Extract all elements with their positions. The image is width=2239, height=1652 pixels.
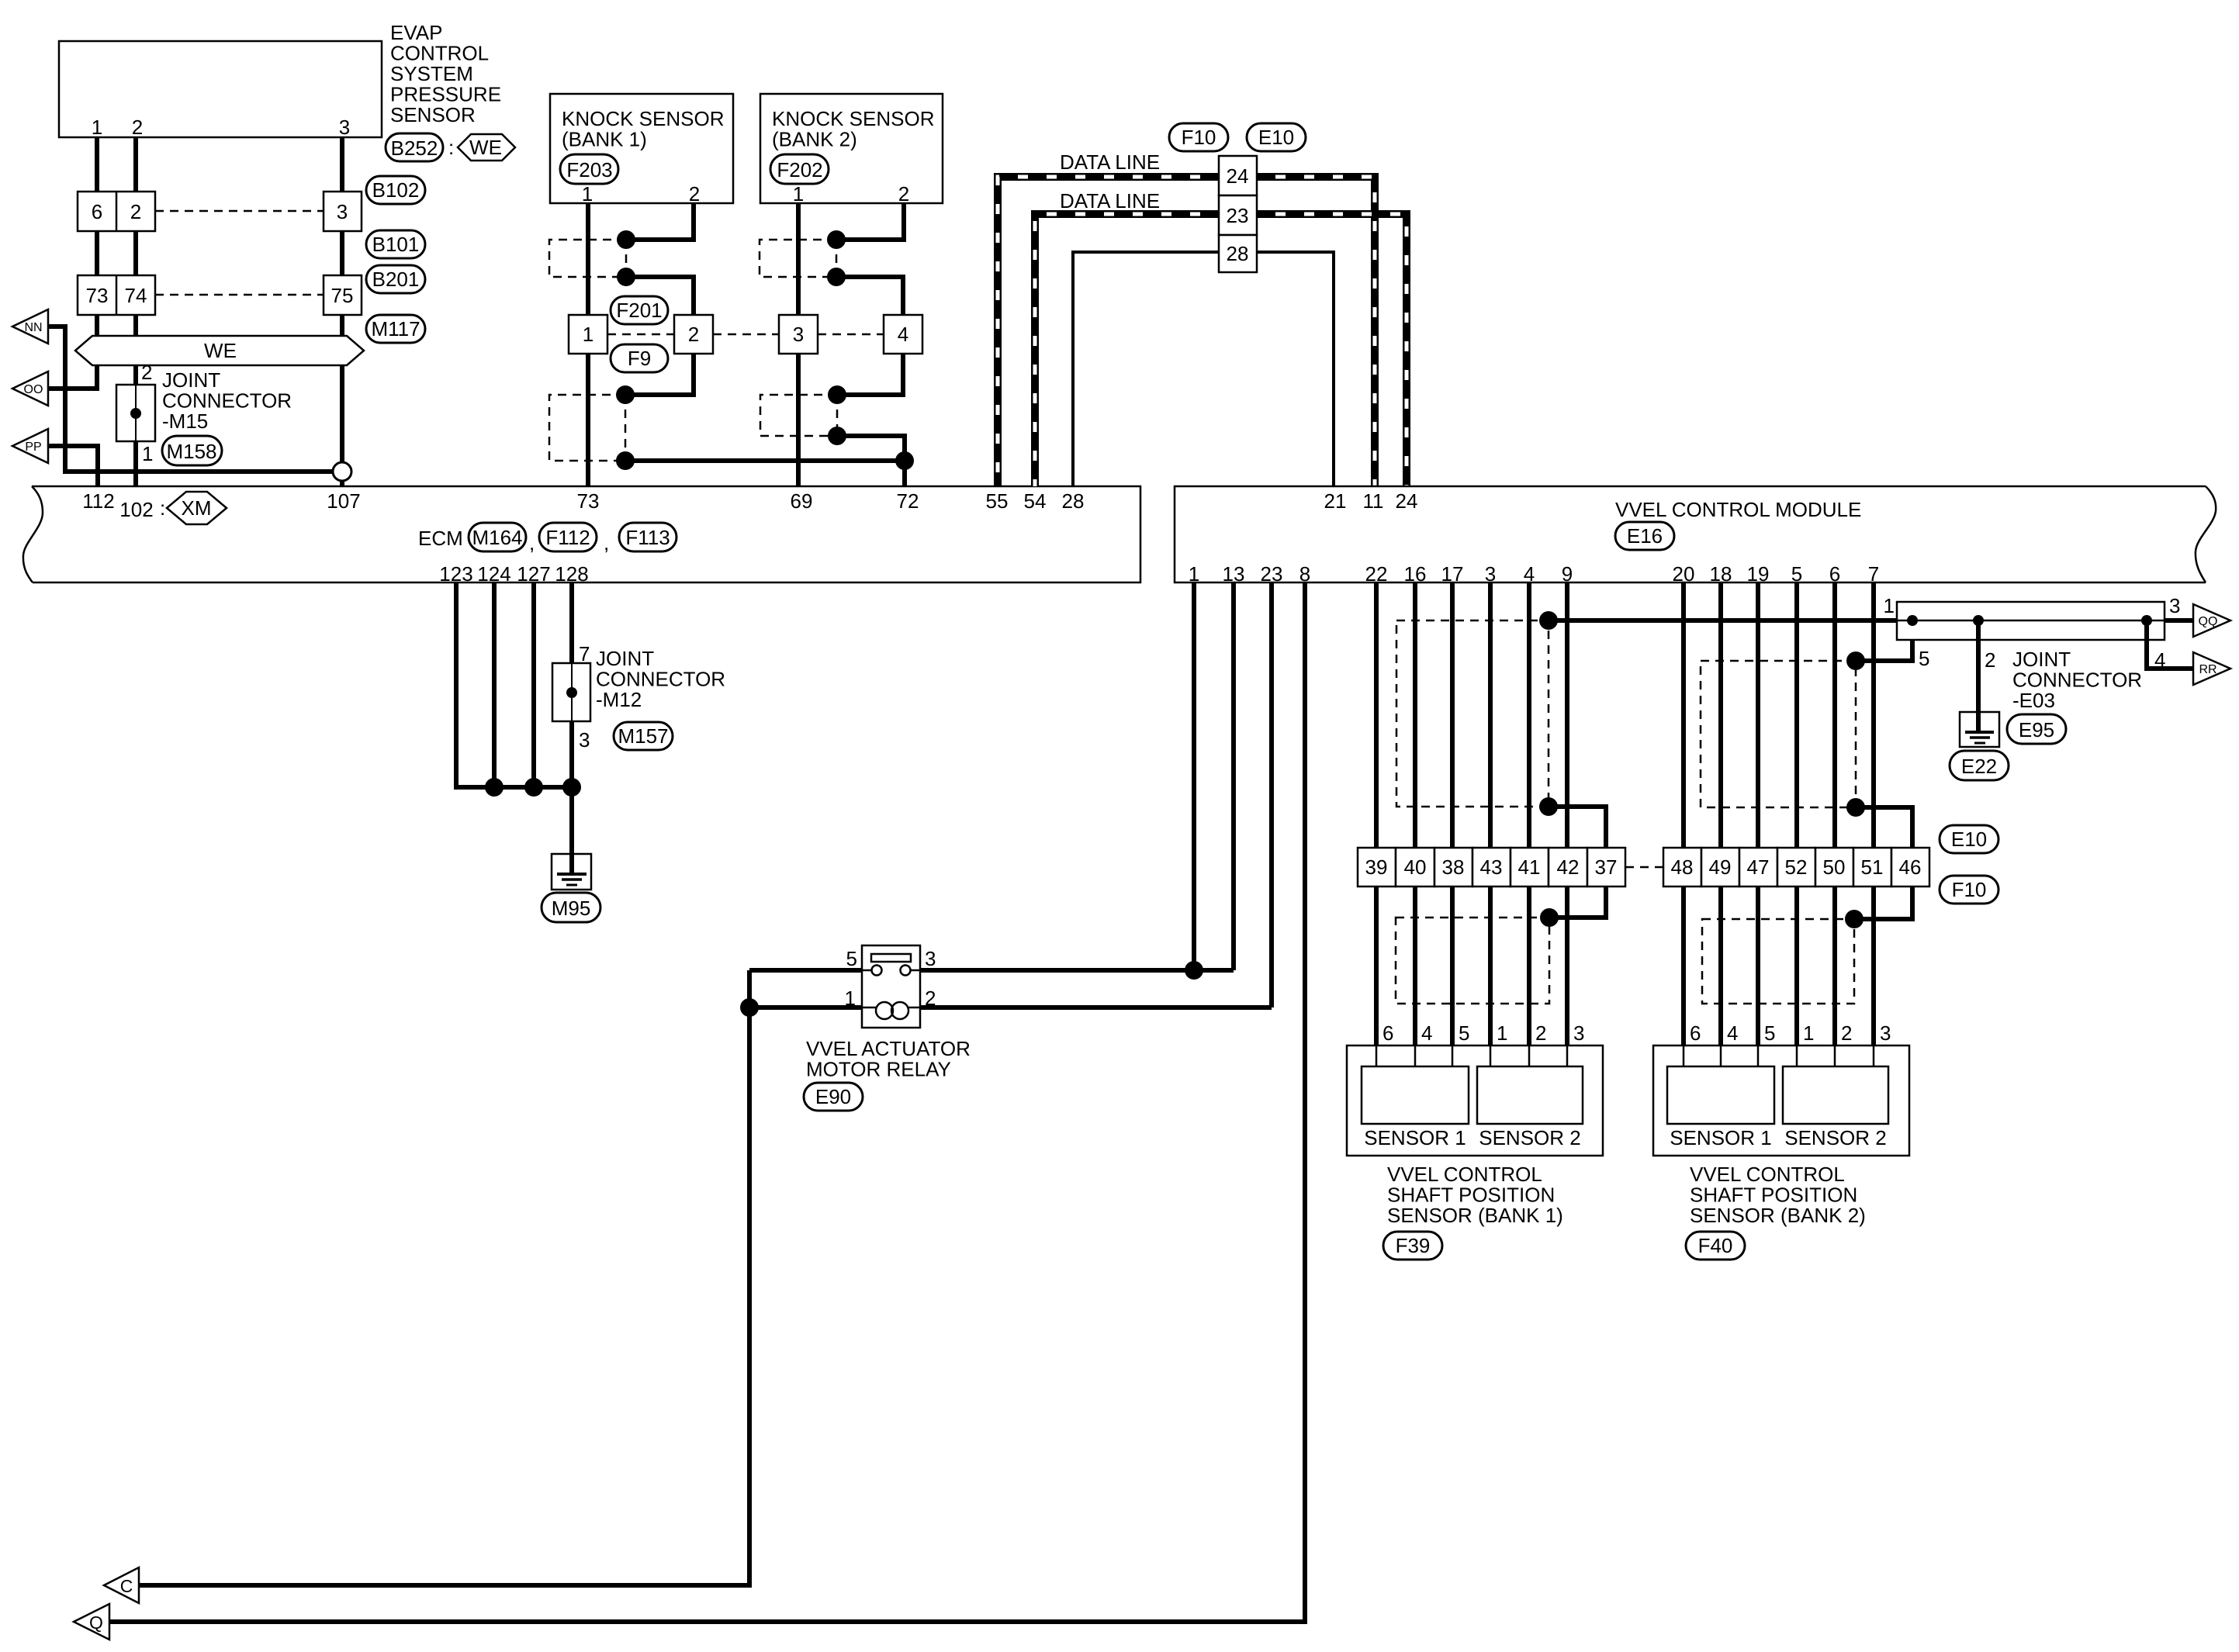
junction dot shield B2 lower a (828, 385, 846, 404)
wire: shield B2 to ECM 72 riser (837, 436, 905, 486)
svg-text:47: 47 (1747, 855, 1770, 879)
svg-text:112: 112 (82, 489, 114, 513)
connector oval M95 (542, 893, 600, 922)
svg-text:KNOCK SENSOR: KNOCK SENSOR (772, 107, 935, 130)
shield dashed box F40 lower (1702, 919, 1854, 1004)
connector oval B252 (386, 133, 443, 161)
svg-text:F203: F203 (566, 158, 612, 181)
svg-text:21: 21 (1324, 489, 1347, 513)
joint connector -M15 box (116, 385, 155, 441)
svg-text:DATA LINE: DATA LINE (1060, 189, 1160, 213)
connector row B201/M117: cell 75 (324, 275, 362, 315)
svg-text::: : (160, 496, 165, 520)
svg-text:Q: Q (89, 1612, 103, 1633)
svg-text:50: 50 (1823, 855, 1846, 879)
svg-text:18: 18 (1710, 562, 1732, 586)
junction dot shield B2 upper b (827, 268, 846, 286)
junction dot shield B1 lower a (616, 385, 635, 404)
connector oval M157 (614, 722, 673, 750)
connector oval F10 (top) (1169, 123, 1228, 151)
connector oval M158 (162, 436, 222, 465)
wire: below F201 pin2 to shield (625, 354, 694, 395)
data line connector cell 28 (1219, 235, 1257, 272)
svg-text:73: 73 (577, 489, 600, 513)
svg-text:CONNECTOR: CONNECTOR (2012, 669, 2142, 692)
knock harness connector cell 1 (569, 315, 607, 354)
svg-text:PRESSURE: PRESSURE (390, 83, 501, 106)
svg-text:3: 3 (1485, 562, 1496, 586)
svg-text:3: 3 (2169, 594, 2180, 617)
wire: M15 pin1 to ECM pin 102 (133, 441, 138, 486)
wire: ECM pin 123 ground branch (456, 582, 572, 787)
wire: VVEL pin22 to F39 sensor (1374, 582, 1379, 1045)
svg-text:E16: E16 (1627, 524, 1663, 548)
harness arrow C (104, 1567, 139, 1603)
svg-text:49: 49 (1709, 855, 1732, 879)
svg-text:123: 123 (439, 562, 472, 586)
svg-text:24: 24 (1396, 489, 1418, 513)
svg-text:E90: E90 (815, 1085, 851, 1108)
wire: junction to ground M95 (569, 787, 574, 874)
svg-text:ECM: ECM (418, 527, 463, 550)
wire: shield to joint connector E03 pin1 (1549, 618, 1897, 623)
VVEL shaft position sensor bank1 outer box (1347, 1045, 1603, 1156)
svg-text:19: 19 (1747, 562, 1770, 586)
svg-text:40: 40 (1404, 855, 1427, 879)
wire: B101 pin2 to B201 pin74 (133, 231, 138, 275)
svg-text:B102: B102 (372, 178, 420, 202)
wire: VVEL pin17 to F39 sensor (1450, 582, 1455, 1045)
VVEL bus torn right edge (2196, 486, 2216, 582)
wire: ECM pin 124 ground branch (492, 582, 497, 787)
junction dot shield B2 lower b (828, 427, 846, 445)
wire: B101 pin6 to B201 pin73 (95, 231, 99, 275)
VVEL shaft position sensor bank2 outer box (1653, 1045, 1909, 1156)
M12 internal junction dot (566, 687, 577, 698)
knock harness connector cell 3 (779, 315, 818, 354)
svg-text:1: 1 (793, 182, 804, 206)
svg-text:C: C (120, 1576, 133, 1596)
wire: VVEL pin4 to F39 sensor (1527, 582, 1531, 1045)
wire: E03 pin3 to arrow QQ (2165, 618, 2193, 623)
svg-text:2: 2 (130, 200, 141, 223)
svg-text:F202: F202 (777, 158, 822, 181)
dashed shield box B2 upper (760, 240, 836, 277)
svg-text:3: 3 (925, 947, 936, 970)
svg-text:E22: E22 (1961, 755, 1997, 778)
svg-text:KNOCK SENSOR: KNOCK SENSOR (562, 107, 725, 130)
wire: VVEL pin7 to F40 sensor (1871, 582, 1876, 1045)
svg-text:24: 24 (1227, 164, 1249, 188)
wire: box28 to ECM 28 (1073, 252, 1219, 486)
connector oval E22 (1950, 751, 2009, 780)
svg-text:,: , (604, 531, 609, 555)
joint connector -M12 box (552, 663, 590, 721)
svg-text:1: 1 (583, 323, 593, 346)
svg-text:CONNECTOR: CONNECTOR (596, 668, 725, 691)
wire: PP arrow to ECM pin 112 (48, 446, 98, 486)
svg-text:RR: RR (2199, 663, 2217, 676)
harness arrow OO (12, 372, 48, 406)
svg-text:7: 7 (579, 642, 590, 665)
junction dot shield B1 upper b (617, 268, 635, 286)
ground symbol M95 (552, 854, 591, 890)
wire: knock sensor B1 pin1 to ECM 73 (586, 203, 590, 486)
wire: riser to arrow C (139, 970, 749, 1585)
knock sensor bank2 box (760, 94, 943, 203)
connector oval F39 (1383, 1232, 1442, 1260)
svg-text:F10: F10 (1952, 878, 1987, 901)
svg-text:F201: F201 (616, 299, 662, 322)
svg-text:JOINT: JOINT (2012, 648, 2071, 671)
svg-text:NN: NN (24, 321, 42, 334)
svg-text:124: 124 (477, 562, 510, 586)
wire: shield to connector cell 46 (1854, 807, 1912, 919)
svg-text:2: 2 (1535, 1021, 1546, 1045)
junction dot 124 (485, 778, 504, 797)
svg-text:2: 2 (689, 182, 700, 206)
connector row B201/M117: cells 73 and 74 (78, 275, 155, 315)
svg-text:2: 2 (898, 182, 909, 206)
wire: VVEL pin18 to F40 sensor (1718, 582, 1723, 1045)
wire: box28 to VVEL 21 (1257, 252, 1334, 486)
relay coil internal stubs (862, 1007, 876, 1009)
relay contact terminal right (901, 966, 911, 976)
shield junction dot F39 lower (1539, 797, 1558, 816)
connector oval F112 (539, 523, 597, 551)
svg-text:VVEL CONTROL: VVEL CONTROL (1690, 1163, 1845, 1186)
svg-text::: : (448, 136, 454, 159)
svg-text:1: 1 (142, 442, 153, 465)
F39 sensor2 inner box (1477, 1066, 1583, 1124)
wire: E03 pin2 to ground E22 (1976, 620, 1981, 732)
shield junction dot F40 lower (1846, 798, 1865, 817)
svg-text:B201: B201 (372, 268, 420, 291)
F40 sensor2 inner box (1783, 1066, 1888, 1124)
dashed shield box B1 lower (549, 395, 625, 461)
svg-text:28: 28 (1062, 489, 1085, 513)
svg-text:SHAFT POSITION: SHAFT POSITION (1690, 1184, 1857, 1207)
connector oval F40 (1686, 1232, 1745, 1260)
svg-text:VVEL CONTROL: VVEL CONTROL (1387, 1163, 1542, 1186)
svg-text:SENSOR 1: SENSOR 1 (1670, 1126, 1772, 1149)
wire: VVEL pin19 to F40 sensor (1756, 582, 1760, 1045)
svg-text:(BANK 2): (BANK 2) (772, 128, 857, 151)
svg-text:(BANK 1): (BANK 1) (562, 128, 647, 151)
connector row B102/B101: cell 3 (324, 192, 362, 231)
svg-text:F9: F9 (628, 347, 651, 370)
wire: VVEL pin6 to F40 sensor (1832, 582, 1837, 1045)
wire: knock sensor B2 pin2 jog (836, 203, 904, 240)
harness arrow RR (2193, 652, 2230, 685)
svg-text:3: 3 (337, 200, 348, 223)
wire: M117 pin75 down through WE band (340, 315, 344, 351)
wire: relay pin5 to arrow C riser (749, 968, 862, 973)
svg-text:37: 37 (1595, 855, 1618, 879)
svg-text:23: 23 (1261, 562, 1283, 586)
E03 internal dot pin5 (1907, 615, 1918, 626)
svg-text:SENSOR (BANK 1): SENSOR (BANK 1) (1387, 1204, 1563, 1227)
connector oval M164 (469, 523, 526, 551)
dashed shield link B1 upper (625, 240, 628, 277)
wire: shield B2 to connector F201 pin4 (836, 277, 903, 315)
E03 internal dot pin2 (1973, 615, 1984, 626)
shield junction dot F40 bottom (1845, 910, 1864, 928)
svg-text:SHAFT POSITION: SHAFT POSITION (1387, 1184, 1555, 1207)
svg-text:SENSOR 1: SENSOR 1 (1364, 1126, 1466, 1149)
dashed link 3-4 (818, 334, 884, 336)
F40 sensor1 inner box (1667, 1066, 1774, 1124)
svg-text:6: 6 (92, 200, 102, 223)
wire: M117 pin74 down through WE band (133, 315, 138, 351)
svg-text:4: 4 (1727, 1021, 1738, 1045)
svg-text:,: , (529, 531, 535, 555)
junction dot 128 (562, 778, 581, 797)
data line CAN-L (thick dashed) left: box23 to ECM 54 (1035, 214, 1219, 486)
svg-text:5: 5 (1764, 1021, 1775, 1045)
svg-text:E95: E95 (2019, 718, 2054, 741)
F40 pin stubs (1683, 1045, 1685, 1066)
connector oval B101 (366, 230, 425, 258)
svg-text:2: 2 (688, 323, 699, 346)
wire name band WE (hexagonal) (75, 336, 364, 365)
svg-text:43: 43 (1480, 855, 1503, 879)
data line connector cell 24 (1219, 156, 1257, 195)
wire: EVAP pin1 to connector B102 pin6 (95, 137, 99, 192)
connector row B102/B101: cells 6 and 2 (78, 192, 155, 231)
wire: shield bus to ECM 72 (long horizontal) (625, 458, 905, 463)
svg-text:38: 38 (1442, 855, 1465, 879)
svg-text:2: 2 (141, 361, 152, 384)
wire: VVEL pin3 to F39 sensor (1488, 582, 1493, 1045)
dashed shield box B2 lower (760, 395, 837, 436)
connector oval E10 (top) (1247, 123, 1306, 151)
svg-text:3: 3 (793, 323, 804, 346)
svg-text:QQ: QQ (2199, 615, 2218, 628)
svg-text:XM: XM (182, 496, 212, 520)
wire: relay pin3 to VVEL pins 1 and 13 (920, 968, 1234, 973)
svg-text:F112: F112 (545, 526, 590, 549)
F39 pin stubs (1376, 1045, 1378, 1066)
EVAP control system pressure sensor box (59, 41, 382, 137)
svg-text:102: 102 (119, 498, 153, 521)
svg-text:F10: F10 (1182, 126, 1216, 149)
connector oval F9 (611, 344, 668, 372)
dashed shield link B2 upper (836, 240, 838, 277)
svg-text:23: 23 (1227, 204, 1249, 227)
harness arrow PP (12, 429, 48, 463)
junction dot shield B1 lower b (616, 451, 635, 470)
wire: relay pin2 to VVEL pin 23 (920, 1005, 1272, 1010)
svg-text:2: 2 (1985, 648, 1995, 672)
svg-text:CONNECTOR: CONNECTOR (162, 389, 292, 413)
connector oval F202 (770, 154, 829, 184)
svg-text:SYSTEM: SYSTEM (390, 62, 473, 85)
junction dot shield B1 upper a (617, 230, 635, 249)
wire: VVEL pin16 to F39 sensor (1413, 582, 1417, 1045)
svg-text:5: 5 (1459, 1021, 1469, 1045)
svg-text:20: 20 (1673, 562, 1695, 586)
F39 sensor1 inner box (1362, 1066, 1469, 1124)
svg-text:MOTOR RELAY: MOTOR RELAY (806, 1058, 951, 1081)
svg-text:JOINT: JOINT (596, 647, 654, 670)
svg-text:B252: B252 (391, 137, 438, 160)
harness arrow Q (74, 1604, 109, 1640)
wire: VVEL pin5 to F40 sensor (1794, 582, 1799, 1045)
ECM bus torn left edge (23, 486, 43, 582)
wire: B101 pin3 to B201 pin75 (340, 231, 344, 275)
svg-text:107: 107 (327, 489, 360, 513)
wire: knock sensor B2 pin1 to ECM 69 (796, 203, 801, 486)
svg-text:F113: F113 (625, 526, 670, 549)
svg-text:F39: F39 (1396, 1234, 1431, 1257)
svg-text:1: 1 (92, 116, 102, 139)
E03 internal dot pin4 (2141, 615, 2152, 626)
connector oval B102 (366, 176, 425, 204)
harness arrow QQ (2193, 604, 2230, 637)
svg-text:3: 3 (1880, 1021, 1891, 1045)
wire: VVEL pin9 to F39 sensor (1565, 582, 1569, 1045)
svg-text:WE: WE (469, 136, 502, 159)
dashed shield link B2 lower (836, 395, 839, 436)
svg-text:SENSOR 2: SENSOR 2 (1784, 1126, 1887, 1149)
svg-text:M95: M95 (552, 897, 591, 920)
harness connector row F40: cells 48 49 47 52 50 51 46 (1663, 848, 1701, 886)
svg-text:VVEL ACTUATOR: VVEL ACTUATOR (806, 1037, 971, 1060)
knock harness connector cell 2 (674, 315, 713, 354)
svg-text:127: 127 (517, 562, 550, 586)
wire: ECM pin 128 to joint connector M12 (569, 582, 574, 663)
connector oval M117 (366, 315, 425, 343)
svg-text:5: 5 (846, 947, 857, 970)
wire: M117 pin73 down through WE band (95, 315, 99, 351)
wire: VVEL pin23 to relay coil (1269, 582, 1274, 1007)
svg-text:74: 74 (125, 284, 147, 307)
svg-text:5: 5 (1919, 647, 1929, 670)
svg-text:-E03: -E03 (2012, 689, 2055, 712)
wire: EVAP pin3 branch down to ECM pin 107 (340, 365, 344, 486)
junction dot relay coil feed (740, 998, 759, 1017)
svg-text:PP: PP (25, 441, 41, 454)
svg-text:1: 1 (1189, 562, 1199, 586)
dashed connector link row1 (155, 210, 324, 213)
svg-text:M157: M157 (618, 724, 668, 748)
knock sensor bank1 box (550, 94, 733, 203)
svg-text:OO: OO (24, 383, 43, 396)
svg-text:1: 1 (1497, 1021, 1507, 1045)
wire: EVAP pin3 to connector B102 pin3 (340, 137, 344, 192)
dashed connector link row2 (155, 294, 324, 296)
wire: WE band down to OO corner (EVAP pin1 branch) (48, 365, 97, 389)
svg-text:WE: WE (204, 339, 237, 362)
relay contact internal stubs (862, 969, 871, 972)
svg-text:SENSOR 2: SENSOR 2 (1479, 1126, 1581, 1149)
svg-text:69: 69 (791, 489, 813, 513)
svg-text:75: 75 (331, 284, 354, 307)
data line CAN-L right: box23 to VVEL 24 (1257, 214, 1407, 486)
svg-text:VVEL CONTROL MODULE: VVEL CONTROL MODULE (1615, 498, 1861, 521)
svg-text:SENSOR (BANK 2): SENSOR (BANK 2) (1690, 1204, 1866, 1227)
VVEL actuator motor relay box (862, 945, 920, 1028)
svg-text:6: 6 (1383, 1021, 1393, 1045)
M15 internal junction dot (130, 408, 141, 419)
svg-text:DATA LINE: DATA LINE (1060, 150, 1160, 174)
junction dot 127 (524, 778, 543, 797)
wire: VVEL pin8 to arrow Q (109, 582, 1305, 1622)
open splice circle at node 107 (333, 462, 351, 481)
shield dashed box F40 upper (1701, 661, 1856, 807)
ground symbol E22 (1960, 712, 1999, 747)
connector oval F113 (619, 523, 677, 551)
harness arrow NN (12, 309, 48, 344)
wire: E03 pin4 to arrow RR (2147, 620, 2193, 669)
shield junction dot to E03 pin5 (1846, 651, 1865, 670)
shield junction dot F39 bottom (1540, 908, 1559, 927)
svg-text:4: 4 (1524, 562, 1535, 586)
wire: shield B1 to connector F201 pin2 (626, 277, 694, 315)
svg-text:M158: M158 (166, 440, 216, 463)
ECM bus band (32, 486, 1140, 582)
svg-text:B101: B101 (372, 233, 420, 256)
connector oval B201 (366, 265, 425, 293)
svg-text:8: 8 (1299, 562, 1310, 586)
junction dot shield B2 upper a (827, 230, 846, 249)
svg-text:M164: M164 (472, 526, 522, 549)
svg-text:1: 1 (1884, 594, 1895, 617)
wire: relay pin1 stub (749, 1005, 862, 1010)
svg-text:73: 73 (86, 284, 109, 307)
svg-text:9: 9 (1562, 562, 1573, 586)
data line connector cell 23 (1219, 195, 1257, 235)
svg-text:7: 7 (1868, 562, 1879, 586)
svg-text:4: 4 (1421, 1021, 1432, 1045)
svg-text:28: 28 (1227, 242, 1249, 265)
svg-text:CONTROL: CONTROL (390, 42, 489, 65)
wire: shield to connector cell 37 (1549, 807, 1606, 918)
svg-text:2: 2 (1841, 1021, 1852, 1045)
svg-text:SENSOR: SENSOR (390, 103, 476, 126)
svg-text:EVAP: EVAP (390, 21, 442, 44)
svg-text:11: 11 (1363, 489, 1384, 513)
wire: knock sensor B1 pin2 jog (626, 203, 694, 240)
svg-text:128: 128 (555, 562, 588, 586)
wire color hexagon XM (167, 492, 227, 524)
wire: M15 pin2 from WE band (133, 365, 138, 385)
svg-text:54: 54 (1024, 489, 1047, 513)
wire: NN arrow to node at 107 (48, 327, 342, 472)
svg-text:72: 72 (897, 489, 919, 513)
dashed shield box B1 upper (549, 240, 626, 277)
joint connector -E03 box (1897, 602, 2165, 640)
svg-text:E10: E10 (1258, 126, 1294, 149)
connector oval F203 (560, 154, 618, 184)
shield dashed box F39 upper (1396, 620, 1549, 807)
VVEL control module bus band (1175, 486, 2206, 582)
knock harness connector cell 4 (884, 315, 922, 354)
data line CAN-H (thick dashed) left: box24 to ECM 55 (998, 177, 1219, 486)
connector oval E95 (2007, 714, 2066, 744)
svg-text:M117: M117 (371, 317, 420, 340)
svg-text:6: 6 (1829, 562, 1840, 586)
svg-text:E10: E10 (1951, 828, 1987, 851)
connector oval F201 (611, 296, 668, 324)
wire: M12 pin3 down to ground junction (569, 721, 574, 787)
svg-text:16: 16 (1404, 562, 1427, 586)
dashed link 37-48 (1625, 866, 1663, 869)
E03 internal bus line (1897, 620, 2165, 622)
svg-text:42: 42 (1557, 855, 1580, 879)
dashed shield link B1 lower (625, 395, 627, 461)
